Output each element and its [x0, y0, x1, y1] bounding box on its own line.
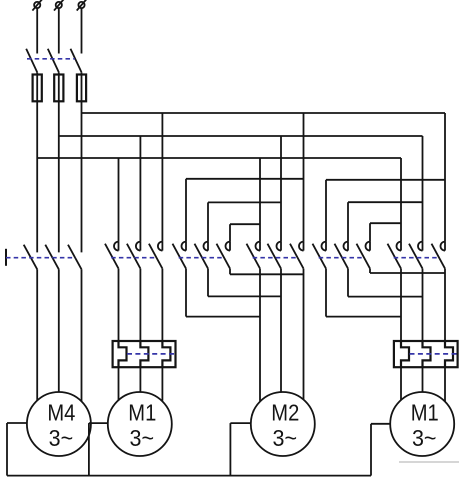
- svg-text:M2: M2: [271, 399, 299, 425]
- svg-text:M1: M1: [128, 399, 156, 425]
- svg-text:3~: 3~: [49, 425, 74, 451]
- svg-text:3~: 3~: [273, 425, 298, 451]
- svg-text:3~: 3~: [130, 425, 155, 451]
- svg-text:M1: M1: [411, 399, 439, 425]
- svg-text:3~: 3~: [412, 425, 437, 451]
- svg-text:M4: M4: [47, 399, 75, 425]
